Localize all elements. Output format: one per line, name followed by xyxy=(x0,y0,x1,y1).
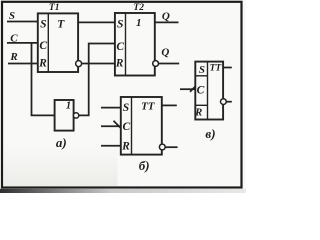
TT(v) pin column divider xyxy=(207,62,209,120)
wire C input of TT (v) xyxy=(180,88,195,90)
wire direct output of TT (v) xyxy=(223,67,232,69)
svg-text:T: T xyxy=(57,19,65,31)
wire inverted output of TT (b) xyxy=(165,146,177,148)
svg-text:S: S xyxy=(9,10,15,22)
wire T2 output Q xyxy=(155,21,179,23)
svg-text:в): в) xyxy=(205,126,215,141)
T2 pin column divider xyxy=(125,13,127,76)
svg-text:Q: Q xyxy=(161,46,169,58)
T2 body xyxy=(115,13,155,76)
wire inverter output up to T2 C xyxy=(79,44,115,116)
wire C branch down to inverter input xyxy=(32,43,55,116)
wire S input to T1 xyxy=(7,21,38,23)
svg-text:S: S xyxy=(199,64,205,76)
svg-text:C: C xyxy=(39,40,47,52)
svg-text:S: S xyxy=(123,102,129,114)
inverter gate xyxy=(55,100,74,131)
TT(b) body xyxy=(121,97,162,155)
flip-flop T2 xyxy=(115,3,155,76)
svg-text:T1: T1 xyxy=(49,3,60,13)
svg-text:S: S xyxy=(40,19,46,31)
TT(v) body xyxy=(195,62,223,120)
svg-text:TT: TT xyxy=(141,101,156,113)
inversion bubble on TT(v) inverted output xyxy=(221,99,227,105)
wire T2 inverted output Q-bar xyxy=(158,63,179,65)
inverter body xyxy=(55,100,74,131)
svg-text:S: S xyxy=(117,19,123,31)
svg-text:C: C xyxy=(197,85,205,97)
TT(v) S section divider xyxy=(195,75,207,77)
wire direct output of TT (b) xyxy=(162,104,177,106)
svg-text:б): б) xyxy=(139,158,150,173)
wire T1 direct output to T2 S xyxy=(78,21,115,23)
svg-text:C: C xyxy=(116,41,124,53)
svg-text:R: R xyxy=(115,58,124,70)
inversion bubble on TT(b) inverted output xyxy=(159,144,165,150)
flip-flop TT (variant b) xyxy=(121,97,162,155)
wire C input of TT (b) xyxy=(101,125,121,127)
TT(v) R section divider xyxy=(195,104,207,106)
svg-text:R: R xyxy=(121,140,130,152)
dynamic edge mark on C input (b) xyxy=(114,121,122,129)
svg-text:TT: TT xyxy=(210,64,223,74)
flip-flop T1 xyxy=(38,3,78,72)
T1 pin column divider xyxy=(47,13,49,72)
svg-text:C: C xyxy=(10,32,18,44)
svg-text:T2: T2 xyxy=(133,3,144,13)
svg-text:Q: Q xyxy=(162,10,170,22)
inversion bubble on T1 inverted output xyxy=(76,61,82,67)
T1 body xyxy=(38,13,78,72)
svg-text:а): а) xyxy=(56,135,67,150)
flip-flop TT (variant v) xyxy=(194,62,223,120)
wire R input to T1 xyxy=(8,63,38,65)
svg-text:1: 1 xyxy=(66,101,71,112)
inversion bubble on T2 inverted output xyxy=(153,61,159,67)
svg-text:R: R xyxy=(194,108,202,119)
TT(b) pin column divider xyxy=(131,97,133,155)
wire inverted output of TT (v) xyxy=(226,101,232,103)
svg-text:R: R xyxy=(38,58,47,70)
inversion bubble on inverter output xyxy=(73,113,78,118)
svg-text:R: R xyxy=(9,51,17,63)
svg-text:C: C xyxy=(122,121,130,133)
wire T1 inverted output to T2 R xyxy=(81,63,115,65)
dynamic edge mark on C input (v) xyxy=(190,85,197,92)
wire R input of TT (b) xyxy=(101,145,121,147)
wire C input to T1 xyxy=(7,42,38,44)
wire S input of TT (b) xyxy=(101,107,121,109)
svg-text:1: 1 xyxy=(136,17,142,29)
